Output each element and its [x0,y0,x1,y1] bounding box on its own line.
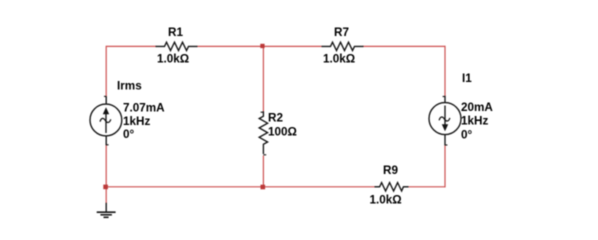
resistor R7 [322,42,364,50]
wire right vertical lower (I1 bottom pin to bottom-right corner) [444,145,446,187]
svg-text:0°: 0° [461,129,473,142]
current source I1 (AC, arrow down) [429,96,461,146]
svg-text:R1: R1 [168,26,183,39]
pin tick (R2 bottom) [263,154,266,156]
svg-text:0°: 0° [123,128,135,141]
svg-text:7.07mA: 7.07mA [123,101,165,114]
svg-text:100Ω: 100Ω [268,126,297,139]
wire right vertical upper (top-right corner to I1 top pin) [444,46,446,96]
wire middle vertical upper (top node to R2 top pin) [262,46,264,112]
svg-text:1kHz: 1kHz [461,115,488,128]
node junction dot (top middle) [260,44,264,48]
wire bottom-right horizontal (R9 right to bottom-right corner) [408,186,445,188]
svg-text:1kHz: 1kHz [123,115,150,128]
node junction dot (bottom left) [103,185,108,190]
svg-text:I1: I1 [462,72,472,85]
wire bottom-left horizontal (bottom node to R9 left) [106,186,374,188]
svg-text:R9: R9 [383,164,398,177]
wire ground stub (bottom node to ground lead) [105,187,107,204]
resistor R9 [375,183,409,191]
wire top-right horizontal (R7 right to right corner) [363,45,445,47]
ground [97,203,116,218]
resistor R1 [156,42,198,50]
current source Irms (AC, arrow up) [90,96,122,145]
svg-text:R2: R2 [268,112,283,125]
wire left vertical lower (Irms bottom pin to bottom node) [105,145,107,187]
pin tick (Irms bottom) [106,144,108,146]
wire top-left horizontal (node top, left of R1) [106,45,156,47]
svg-text:20mA: 20mA [461,101,493,114]
svg-text:1.0kΩ: 1.0kΩ [370,194,402,207]
pin tick (I1 top) [443,96,445,98]
wire top-middle horizontal (R1 right to R7 left) [198,45,322,47]
pin tick (I1 bottom) [445,144,447,146]
svg-text:R7: R7 [334,26,349,39]
resistor R2 (vertical) [259,111,267,154]
wire middle vertical lower (R2 bottom pin to bottom node) [262,156,264,187]
svg-text:1.0kΩ: 1.0kΩ [157,53,189,66]
svg-text:Irms: Irms [117,80,142,93]
wire left vertical upper (corner to Irms top pin) [105,46,107,97]
svg-text:1.0kΩ: 1.0kΩ [323,53,355,66]
node junction dot (bottom middle) [261,185,266,190]
pin tick (R2 top) [261,111,264,113]
pin tick (Irms top) [104,95,106,97]
